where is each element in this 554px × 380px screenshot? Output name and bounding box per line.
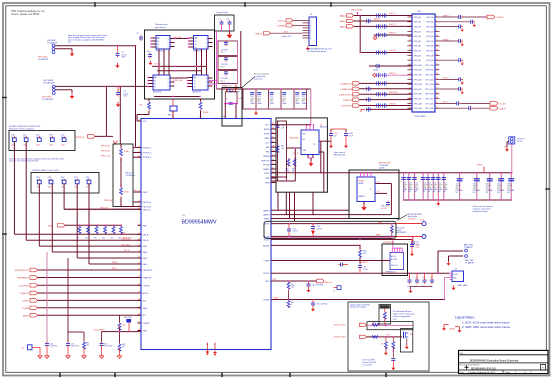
capacitor: [137, 33, 144, 41]
svg-text:30: 30: [436, 83, 438, 85]
svg-text:C7: C7: [430, 277, 432, 279]
capacitor: [287, 223, 299, 237]
svg-text:0.1uF: 0.1uF: [420, 220, 424, 222]
net flag: [461, 102, 506, 106]
svg-text:0.06_P2: 0.06_P2: [389, 24, 396, 26]
svg-text:PROG_A: PROG_A: [104, 199, 113, 202]
wire: [271, 239, 413, 240]
svg-text:VBATV: VBATV: [263, 168, 270, 171]
svg-text:GPIO_B10: GPIO_B10: [425, 65, 433, 67]
wire RESET: [118, 315, 125, 343]
ground: [70, 51, 75, 56]
ground: [344, 144, 348, 149]
svg-text:single resistor, change inner: single resistor, change inner: [393, 313, 416, 316]
svg-text:9: 9: [410, 35, 411, 37]
net label: [112, 261, 118, 264]
svg-text:R5: R5: [140, 105, 142, 107]
svg-text:14: 14: [436, 44, 438, 46]
svg-text:5: 5: [310, 30, 311, 32]
svg-text:GRM: GRM: [295, 103, 300, 105]
resistor: [286, 158, 290, 173]
svg-text:VSYS: VSYS: [477, 165, 483, 167]
resistor: [292, 158, 296, 173]
gate driver block: [145, 30, 215, 99]
svg-text:C7: C7: [415, 277, 417, 279]
wire: [101, 332, 103, 342]
svg-text:VCC: VCC: [265, 125, 270, 127]
svg-text:GPIO_A7: GPIO_A7: [414, 50, 421, 53]
svg-text:VBUS_REG: VBUS_REG: [290, 137, 300, 139]
resistor R31: [120, 148, 129, 159]
svg-text:SCL_E: SCL_E: [124, 250, 130, 252]
svg-text:RSET: RSET: [143, 192, 149, 194]
svg-text:DGND: DGND: [264, 300, 270, 302]
wire: [101, 146, 141, 148]
svg-text:29: 29: [409, 83, 411, 85]
svg-text:GPIO_A1: GPIO_A1: [414, 21, 421, 24]
svg-text:GPIO_A0: GPIO_A0: [414, 16, 421, 19]
svg-text:GPIO_B7: GPIO_B7: [426, 51, 433, 53]
resistor: [287, 299, 294, 308]
svg-text:29: 29: [138, 306, 140, 308]
svg-text:J5: J5: [504, 147, 506, 149]
U1 right pins: [261, 123, 276, 301]
connector P2: [42, 80, 55, 101]
svg-text:PROG_2K: PROG_2K: [101, 151, 111, 153]
svg-text:BATP2: BATP2: [263, 214, 270, 217]
svg-text:GRM: GRM: [282, 103, 287, 105]
svg-text:VDRV: VDRV: [264, 134, 270, 136]
svg-text:GPIO_B0: GPIO_B0: [426, 17, 433, 19]
note: [126, 172, 135, 177]
svg-text:GND: GND: [143, 331, 148, 333]
svg-text:10k: 10k: [86, 345, 89, 347]
svg-text:CON5_40PIN: CON5_40PIN: [414, 116, 426, 118]
svg-text:SRN: SRN: [376, 235, 381, 237]
capacitor C2: [116, 86, 129, 97]
wire VSYS bus: [271, 172, 511, 174]
wire: [102, 331, 141, 332]
svg-text:Sheet: Sheet: [505, 371, 510, 374]
ground big: [361, 204, 367, 210]
svg-text:resistor as appropriate: resistor as appropriate: [393, 315, 411, 318]
svg-text:ACOK: ACOK: [143, 292, 149, 295]
net flag VDD: [317, 279, 333, 284]
signal rows to connector: [339, 81, 412, 112]
component: [124, 317, 132, 332]
svg-text:PROG_B: PROG_B: [143, 207, 152, 209]
svg-text:10: 10: [138, 146, 140, 148]
wire: [271, 209, 349, 211]
svg-text:EEPROM opt: EEPROM opt: [386, 270, 397, 273]
svg-text:C7: C7: [407, 277, 409, 279]
svg-text:0: 0: [291, 304, 292, 306]
ground: [82, 354, 86, 359]
wire: [133, 190, 141, 192]
wire: [243, 88, 307, 90]
svg-text:C16 C17 1x2 47uF 10x 10uF 47uF: C16 C17 1x2 47uF 10x 10uF 47uF: [9, 161, 39, 163]
resistor: [359, 245, 367, 257]
svg-text:RES_DET: RES_DET: [123, 237, 133, 239]
svg-text:C67 0.1uF NA: C67 0.1uF NA: [316, 303, 328, 306]
svg-text:GPIO_A6: GPIO_A6: [414, 45, 421, 48]
svg-text:0.47uF: 0.47uF: [317, 229, 323, 231]
svg-text:21: 21: [409, 64, 411, 66]
svg-text:TP-2P: TP-2P: [517, 141, 523, 143]
svg-text:DGND: DGND: [273, 298, 279, 300]
svg-text:C66 0.1uF/X5R: C66 0.1uF/X5R: [312, 285, 324, 287]
svg-text:3: 3: [410, 20, 411, 22]
svg-text:SRP2: SRP2: [264, 224, 270, 226]
svg-text:BAT VSYS pin: BAT VSYS pin: [334, 154, 346, 157]
svg-text:2. SRP, SRN need wide short tr: 2. SRP, SRN need wide short traces: [462, 325, 511, 329]
net label: [361, 261, 368, 264]
svg-text:0.1u: 0.1u: [416, 247, 420, 249]
svg-text:TP-BAT2P: TP-BAT2P: [464, 246, 474, 249]
SRP/SRN filter box: [264, 221, 396, 238]
net label: [123, 237, 133, 239]
svg-text:10: 10: [436, 35, 438, 37]
svg-text:REGN: REGN: [264, 129, 270, 131]
ground: [452, 286, 456, 291]
svg-text:gate drivers: gate drivers: [155, 26, 166, 29]
resistor: [140, 101, 151, 111]
svg-text:GPIO_A5: GPIO_A5: [414, 40, 421, 43]
svg-text:2N7: 2N7: [410, 334, 413, 336]
svg-text:25: 25: [138, 276, 140, 278]
net label: [293, 153, 300, 155]
net label: [124, 250, 130, 252]
svg-text:GPIO_B16: GPIO_B16: [425, 94, 433, 96]
note: [350, 303, 371, 308]
resistor: [381, 337, 388, 349]
output cap bank: [401, 172, 515, 201]
svg-text:37: 37: [272, 155, 274, 157]
wire: [406, 339, 408, 345]
svg-text:34: 34: [272, 168, 274, 170]
option resistors: [77, 225, 122, 240]
wire VDDIO bus: [271, 272, 448, 274]
ground: [254, 111, 258, 116]
wire: [137, 99, 149, 121]
battery FET box: [349, 170, 399, 219]
wire: [101, 155, 141, 157]
wire: [319, 152, 324, 192]
wire red: [396, 223, 422, 225]
inner box: [379, 305, 391, 325]
U9 pins: [450, 273, 453, 279]
svg-text:41: 41: [272, 137, 274, 139]
wire: [375, 191, 387, 193]
wire: [387, 260, 390, 262]
ic U9 load switch: [452, 268, 468, 287]
svg-text:CHGOK: CHGOK: [389, 103, 396, 105]
svg-text:22: 22: [436, 64, 438, 66]
ground: [410, 252, 414, 257]
wire: [200, 99, 202, 119]
gate driver U4: [147, 75, 174, 94]
svg-text:VIN BYP CAPS 2 Close To Pin: VIN BYP CAPS 2 Close To Pin: [32, 169, 59, 172]
ground: [384, 351, 388, 356]
svg-text:1: 1: [310, 20, 311, 22]
capacitor: [411, 236, 420, 246]
resistor: [392, 337, 395, 349]
note: [362, 358, 376, 366]
diode D2: [387, 335, 391, 337]
wire: [55, 45, 136, 47]
svg-text:BD2310G: BD2310G: [153, 92, 162, 94]
gate driver U3: [188, 36, 213, 53]
LDO block box: [276, 118, 327, 192]
svg-text:VSS VCC: VSS VCC: [391, 265, 399, 267]
svg-text:Cycles is for LED: Cycles is for LED: [362, 362, 376, 364]
svg-text:TP-VBUS2P: TP-VBUS2P: [42, 99, 54, 101]
svg-text:shown, please see BOM: shown, please see BOM: [11, 12, 39, 16]
wire SRP row: [271, 222, 396, 224]
svg-text:SDA_E: SDA_E: [112, 261, 118, 264]
connector J6 battery: [464, 244, 475, 265]
svg-text:SDA (P): SDA (P): [500, 107, 507, 110]
capacitor: [147, 51, 153, 59]
svg-text:3: 3: [310, 25, 311, 27]
svg-text:GPIO_B18: GPIO_B18: [425, 103, 433, 105]
svg-text:1. ACP, ACN need wide short tr: 1. ACP, ACN need wide short traces: [462, 320, 510, 324]
ground: [115, 63, 119, 68]
svg-text:SRN2: SRN2: [264, 219, 270, 221]
svg-text:40: 40: [436, 107, 438, 109]
arrow: [311, 231, 315, 237]
ground: [311, 307, 315, 312]
svg-text:GRM: GRM: [250, 103, 255, 105]
svg-text:13: 13: [138, 191, 140, 193]
svg-text:7: 7: [310, 35, 311, 37]
svg-text:TP-ADP2P: TP-ADP2P: [38, 58, 49, 61]
junction: [106, 86, 119, 87]
svg-text:(C)SMB_SDA: (C)SMB_SDA: [340, 88, 352, 91]
wire: [367, 336, 403, 337]
wire VBUS bus: [217, 88, 244, 90]
wire red: [396, 236, 422, 237]
svg-text:GPIO_B3: GPIO_B3: [426, 31, 433, 33]
svg-text:GPIO_B19: GPIO_B19: [425, 108, 433, 110]
note: [254, 74, 270, 81]
svg-text:VIN_B: VIN_B: [143, 240, 149, 242]
capacitor: [410, 240, 419, 252]
J2 pins: [303, 20, 312, 40]
svg-text:VDD: VDD: [265, 281, 270, 283]
svg-text:COMP1: COMP1: [143, 323, 151, 325]
svg-text:0.1uF NC: 0.1uF NC: [50, 346, 58, 348]
capacitor C1: [116, 46, 128, 59]
capacitor: [391, 348, 395, 366]
net label: [155, 62, 162, 65]
ic U6 regulator: [301, 124, 327, 154]
connector J5: [504, 137, 526, 149]
current sense box: [222, 88, 242, 127]
svg-text:BD99954MWV: BD99954MWV: [182, 219, 217, 225]
resistor: [83, 341, 90, 354]
svg-text:GPIO_A17: GPIO_A17: [414, 98, 422, 101]
capacitor: [329, 132, 338, 144]
svg-text:SRP: SRP: [265, 178, 270, 180]
svg-text:4.7: 4.7: [377, 181, 380, 183]
wire: [170, 78, 188, 82]
net label: [94, 330, 106, 332]
svg-text:GPIO_A3: GPIO_A3: [414, 30, 421, 33]
svg-text:(P)CHG_LED2: (P)CHG_LED2: [334, 337, 346, 339]
wire: [449, 256, 464, 261]
cap bank box2: [31, 173, 99, 194]
svg-text:GPIO_A8: GPIO_A8: [414, 54, 421, 57]
tp circle: [420, 220, 426, 226]
svg-text:VREF_C: VREF_C: [443, 15, 450, 17]
svg-text:PROG_C: PROG_C: [143, 209, 152, 211]
svg-text:19: 19: [409, 59, 411, 61]
decoupling caps row: [407, 273, 434, 289]
resistor: [371, 336, 380, 339]
wire staircase to IC left pins: [14, 141, 141, 264]
note: [9, 158, 65, 162]
svg-text:VDD_RESET: VDD_RESET: [94, 330, 106, 332]
net flag: [334, 323, 367, 326]
svg-text:BATP1: BATP1: [263, 209, 270, 212]
svg-text:VCC: VCC: [143, 121, 148, 123]
svg-text:0.15R_GA: 0.15R_GA: [173, 79, 183, 82]
ground: [391, 366, 395, 371]
wire: [55, 49, 72, 51]
svg-text:13: 13: [409, 44, 411, 46]
svg-text:15: 15: [409, 49, 411, 51]
svg-text:REGN_C: REGN_C: [443, 39, 451, 41]
svg-text:R_GAT: R_GAT: [155, 62, 162, 65]
svg-text:GPIO_A16: GPIO_A16: [414, 93, 422, 96]
svg-text:GPIO_A11: GPIO_A11: [414, 69, 422, 72]
svg-text:(B)INT: (B)INT: [23, 315, 30, 317]
svg-text:(C)SMB_SCL: (C)SMB_SCL: [341, 84, 352, 86]
svg-text:6: 6: [310, 33, 311, 35]
svg-text:(P)CHG_LED1: (P)CHG_LED1: [334, 324, 346, 326]
svg-text:SRN: SRN: [265, 183, 270, 185]
connector TP3: [333, 286, 341, 293]
svg-text:(P)INT2: (P)INT2: [255, 34, 262, 36]
wire: [173, 37, 189, 39]
svg-text:VDDIO: VDDIO: [263, 273, 270, 275]
ground tie: [442, 325, 462, 333]
svg-text:ALERT#: ALERT#: [361, 261, 368, 264]
svg-text:SCL_C: SCL_C: [443, 102, 449, 104]
capacitor: [100, 342, 112, 354]
svg-text:0.1u: 0.1u: [147, 51, 151, 53]
svg-text:10k: 10k: [291, 287, 294, 289]
resistor: [287, 280, 294, 299]
connector TP gnd: [22, 345, 40, 354]
title block: [459, 350, 549, 374]
svg-text:12: 12: [436, 40, 438, 42]
svg-text:10k: 10k: [123, 324, 126, 326]
svg-text:20: 20: [138, 245, 140, 247]
ground: [45, 354, 49, 359]
capacitor: [339, 263, 349, 267]
svg-text:20: 20: [436, 59, 438, 61]
wire VDD row: [271, 279, 317, 281]
wire: [287, 147, 302, 149]
svg-text:0.47uF: 0.47uF: [293, 231, 299, 233]
connector J2 header: [309, 14, 317, 46]
svg-text:VSYS: VSYS: [264, 173, 270, 175]
svg-text:etc, and NC: etc, and NC: [362, 364, 372, 367]
wire pink: [444, 278, 452, 301]
svg-text:VSYSV: VSYSV: [263, 165, 270, 167]
svg-text:GPIO_B13: GPIO_B13: [425, 79, 433, 81]
svg-text:(C)PROCHOT#: (C)PROCHOT#: [339, 94, 353, 96]
svg-text:GPIO_A14: GPIO_A14: [414, 83, 422, 86]
wire: [55, 85, 148, 87]
tall box: [400, 329, 412, 352]
note: [227, 89, 240, 93]
svg-text:Part Push NPN: Part Push NPN: [362, 358, 375, 361]
svg-text:17: 17: [138, 224, 140, 226]
svg-text:GPIO_B12: GPIO_B12: [425, 75, 433, 77]
svg-text:SCL (P): SCL (P): [500, 104, 506, 106]
svg-text:Design, NC charged: Design, NC charged: [350, 307, 366, 309]
note input warning: [68, 34, 108, 44]
note: [383, 242, 395, 244]
ground: [117, 354, 121, 359]
svg-text:Size Document Number: Size Document Number: [460, 364, 480, 367]
U1 top pins: [172, 111, 202, 119]
wire: [271, 218, 388, 220]
svg-text:P1S Close To Pin 2 Inductor: P1S Close To Pin 2 Inductor: [9, 127, 34, 130]
capacitor: [311, 299, 328, 307]
svg-text:GRM: GRM: [270, 103, 275, 105]
ground: [329, 144, 333, 149]
svg-text:12: 12: [138, 156, 140, 158]
svg-text:(P)SW: (P)SW: [203, 112, 209, 114]
svg-text:VDD (C): VDD (C): [325, 282, 333, 284]
resistor R32: [120, 187, 129, 198]
svg-text:near pins: near pins: [408, 219, 415, 221]
svg-text:CHG_LED2: CHG_LED2: [121, 244, 130, 246]
resistor: [199, 101, 209, 114]
svg-text:4.7: 4.7: [377, 191, 380, 193]
wire: [295, 147, 296, 181]
net flag: [462, 15, 504, 19]
svg-text:30.1k: 30.1k: [124, 192, 129, 194]
driver internal wires: [152, 49, 207, 97]
resistor: [118, 343, 125, 354]
svg-text:Charger input: Charger input: [155, 23, 168, 26]
capacitor: [66, 342, 79, 354]
svg-text:0.01uF 50: 0.01uF 50: [104, 346, 112, 348]
capacitor: [344, 132, 354, 144]
svg-text:17: 17: [409, 54, 411, 56]
svg-text:0.06_P1: 0.06_P1: [389, 13, 396, 15]
capacitor: [307, 280, 324, 288]
connector right caps: [440, 15, 476, 110]
svg-text:34: 34: [436, 92, 438, 94]
svg-text:11: 11: [409, 40, 411, 42]
svg-text:VREF: VREF: [264, 138, 270, 140]
note: [334, 151, 346, 157]
note: [386, 270, 397, 273]
svg-text:4x 25V: 4x 25V: [381, 208, 387, 210]
svg-text:J2: J2: [310, 14, 312, 16]
svg-text:18: 18: [138, 233, 140, 235]
resistor: [390, 223, 393, 237]
ground: [149, 61, 153, 66]
svg-text:(P)A: (P)A: [48, 224, 53, 227]
wire: [101, 151, 141, 153]
